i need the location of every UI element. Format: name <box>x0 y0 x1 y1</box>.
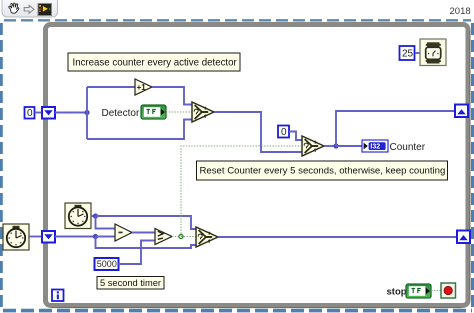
left shift register (timer, down arrow) <box>42 231 55 243</box>
select function U3 <box>196 227 218 247</box>
svg-text:I32: I32 <box>370 144 380 151</box>
svg-text:25: 25 <box>402 49 414 60</box>
node B junction <box>333 143 338 148</box>
node D junction <box>93 234 98 239</box>
svg-text:+1: +1 <box>137 83 147 92</box>
svg-text:5 second timer: 5 second timer <box>100 278 161 288</box>
select function U1 <box>192 102 214 122</box>
wire select2 output to node B <box>324 145 336 147</box>
tick count (ms) inside loop <box>65 203 91 229</box>
constant 0 (reset value) <box>278 126 289 139</box>
tick count (ms) outside loop <box>3 224 29 250</box>
subtract function <box>115 224 132 241</box>
Detector boolean TF control <box>141 105 166 119</box>
wire +1 to select t input <box>152 87 192 105</box>
svg-text:0: 0 <box>281 127 287 138</box>
wire node B to counter indicator <box>336 145 362 147</box>
wire tick count inside to node C <box>91 215 96 217</box>
svg-text:2018: 2018 <box>450 6 471 17</box>
wire select3 output to right shift register timer <box>218 236 457 238</box>
wire node C down to subtract x input <box>96 216 116 229</box>
Counter I32 indicator terminal <box>362 140 388 152</box>
wire node C to select3 t input <box>96 216 197 229</box>
tools palette window <box>2 0 58 17</box>
wire greater-equal output to node E (boolean) <box>172 236 181 238</box>
arrow tool icon <box>24 5 34 13</box>
wire shift register to junction A <box>55 112 87 114</box>
greater or equal function <box>155 229 172 245</box>
iteration terminal i <box>52 290 64 302</box>
wire 0 const to select2 t input <box>289 132 302 141</box>
svg-text:0: 0 <box>27 108 33 119</box>
left shift register (counter, down arrow) <box>42 107 55 119</box>
wire node E up to select2 selector (boolean) <box>181 146 302 237</box>
constant 5000 <box>95 258 119 270</box>
svg-text:Reset Counter every 5 seconds,: Reset Counter every 5 seconds, otherwise… <box>200 166 446 177</box>
wire timer shift register to node D <box>55 236 96 238</box>
node A junction <box>84 110 89 115</box>
wire branch A vertical <box>86 87 88 139</box>
constant 25 (wait ms) <box>400 46 415 60</box>
wire 25 to wait function <box>415 52 420 54</box>
wire boolean detector to select selector <box>166 111 192 113</box>
svg-text:Counter: Counter <box>390 142 426 153</box>
LabVIEW run icon <box>38 4 52 16</box>
stop label <box>387 287 407 298</box>
loop condition stop button terminal <box>441 283 456 298</box>
wire node B up to right shift register <box>336 111 455 146</box>
node C junction <box>93 213 98 218</box>
svg-text:stop: stop <box>387 287 407 298</box>
wire node D down to select3 f input <box>96 237 197 249</box>
svg-text:5000: 5000 <box>97 259 117 269</box>
stop boolean TF control <box>406 284 431 298</box>
wire tick count to left shift register timer <box>29 236 42 238</box>
wire stop TF to loop condition terminal <box>431 290 441 292</box>
wire subtract to greater-equal x input <box>132 232 155 234</box>
Detector label <box>102 108 140 119</box>
Counter label <box>390 142 426 153</box>
wire select1 output to select2 f input <box>214 112 302 152</box>
right shift register (timer, up arrow) <box>457 231 470 244</box>
wire down branch to select f input <box>87 120 192 140</box>
wire up branch to +1 <box>87 86 135 88</box>
wire node E to select3 selector <box>181 236 196 238</box>
wait (ms) function <box>420 39 446 66</box>
increment +1 function <box>135 79 152 95</box>
wire node D to subtract y input <box>96 236 116 238</box>
wire 5000 to greater-equal y input <box>119 241 156 265</box>
hand tool icon <box>9 3 19 13</box>
wire 0-const to left shift register <box>35 112 43 114</box>
right shift register (counter, up arrow) <box>455 105 468 118</box>
svg-text:Increase counter every active: Increase counter every active detector <box>73 58 238 69</box>
select function U2 <box>302 136 324 156</box>
comment label: Increase counter <box>68 53 240 71</box>
constant 0 (counter init) <box>25 107 35 119</box>
comment label: 5 second timer <box>97 277 164 290</box>
node E boolean junction <box>179 234 183 238</box>
svg-text:Detector: Detector <box>102 108 140 119</box>
comment label: Reset Counter <box>197 161 448 180</box>
2018 version text <box>450 6 471 17</box>
